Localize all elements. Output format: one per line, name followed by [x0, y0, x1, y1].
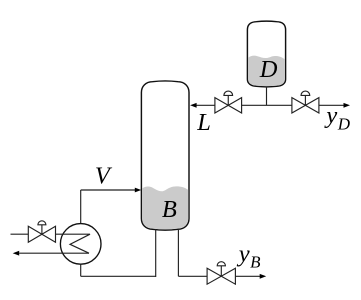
bottoms outlet arrowhead (y_B): [260, 274, 267, 279]
heating medium supply line: [11, 233, 29, 235]
valve V2 actuator dome: [301, 91, 310, 95]
valve V2 (distillate valve): [292, 98, 319, 113]
distillate header between valves: [242, 104, 292, 106]
valve V4 actuator dome: [217, 262, 225, 266]
reboiler heat exchanger circle: [60, 224, 101, 265]
valve V1 actuator dome: [224, 91, 233, 95]
arrowhead into column (V): [135, 188, 141, 193]
svg-text:L: L: [196, 109, 211, 136]
valve V1 actuator stem: [227, 95, 229, 105]
valve V3 actuator stem: [41, 225, 43, 234]
valve V3 actuator dome: [38, 221, 46, 225]
svg-text:V: V: [95, 162, 113, 189]
bottoms outlet line: [235, 275, 260, 277]
bottoms loop horizontal pipe: [81, 275, 156, 277]
valve V1 (reflux valve): [215, 98, 242, 113]
bottoms loop riser to column: [155, 229, 157, 277]
arrowhead into column (L): [190, 103, 197, 108]
svg-text:yB: yB: [236, 240, 261, 271]
column vessel B outline: [141, 81, 189, 230]
valve V4 actuator stem: [220, 266, 222, 277]
column liquid fill: [142, 186, 188, 229]
valve V3 (heating supply valve): [28, 226, 55, 242]
reboiler coil zigzag: [56, 234, 91, 253]
valve V2 actuator stem: [304, 95, 306, 105]
heating medium return line: [19, 252, 89, 254]
svg-text:yD: yD: [323, 102, 350, 134]
svg-text:B: B: [162, 196, 177, 223]
vapor line V into column: [81, 189, 136, 191]
distillate outlet line: [319, 104, 344, 106]
distillate outlet arrowhead (y_D): [344, 103, 351, 108]
reflux line L into column with arrowhead: [196, 104, 215, 106]
pipe from drum D down to distillate header: [266, 88, 268, 106]
bottoms outlet horizontal pipe: [178, 275, 207, 277]
bottoms outlet pipe from column: [177, 229, 179, 276]
svg-text:D: D: [259, 56, 278, 83]
drum liquid fill: [248, 56, 285, 86]
reflux drum vessel D outline: [247, 21, 285, 87]
vapor riser pipe from reboiler: [80, 190, 82, 224]
valve V4 (bottoms valve): [207, 268, 235, 284]
heating medium return arrowhead: [13, 251, 20, 256]
bottoms downcomer: reboiler bottom pipe: [80, 264, 82, 276]
